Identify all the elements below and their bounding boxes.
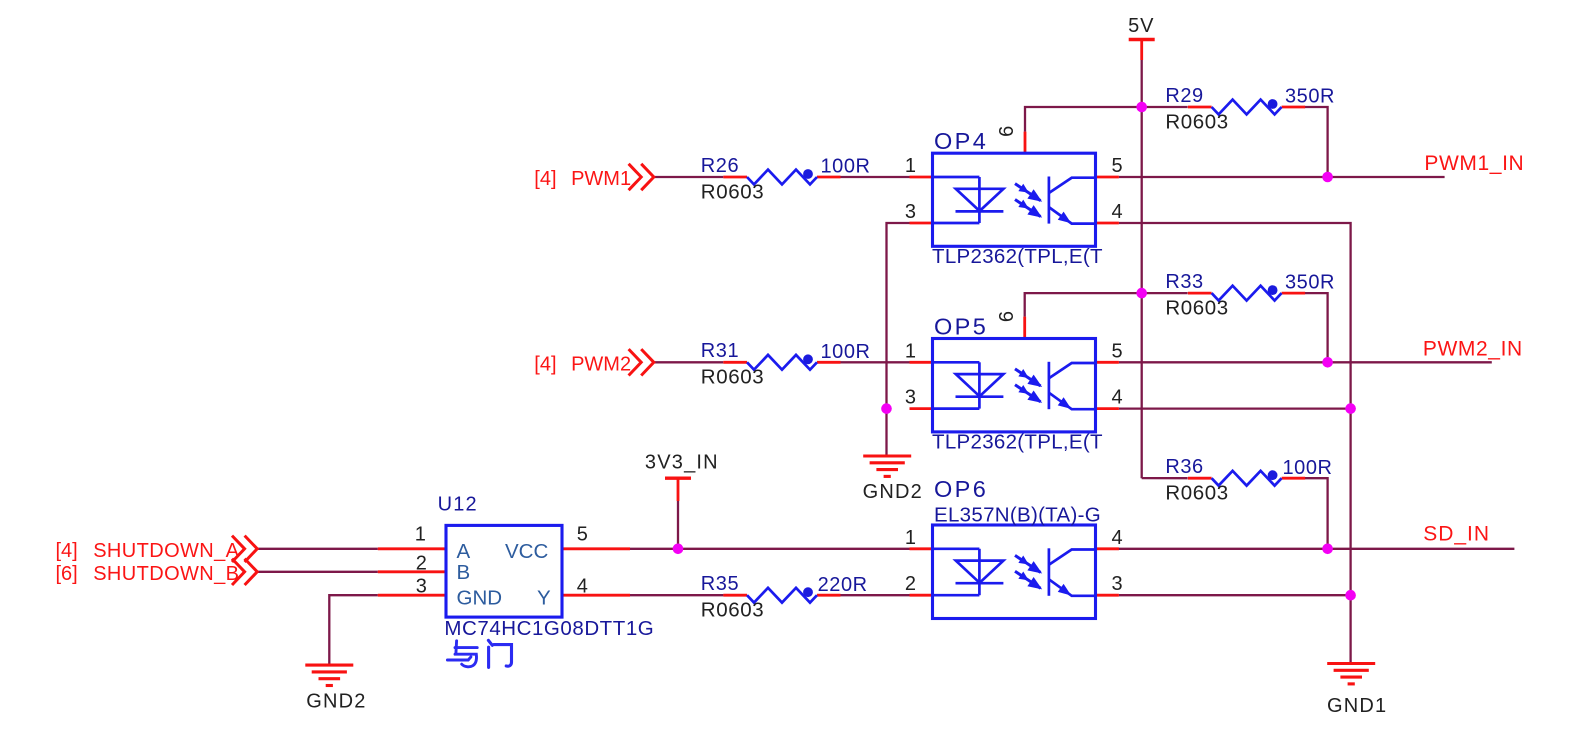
label U12 pin Y [537, 587, 551, 610]
svg-text:3: 3 [416, 575, 427, 597]
wire OP4 pin3 down to OP5 pin3 and GND2 [887, 223, 910, 456]
pin stub OP4 pin5 [1096, 176, 1119, 179]
label U12 [438, 493, 478, 515]
svg-text:3: 3 [905, 387, 916, 409]
wire OP5 pin6 to 5V rail [1025, 293, 1142, 317]
pin number OP4.6 [996, 126, 1018, 137]
pin stub OP5 pin5 [1096, 361, 1119, 364]
svg-text:[4]: [4] [56, 540, 78, 562]
svg-text:3: 3 [1112, 573, 1123, 595]
svg-text:1: 1 [415, 523, 426, 545]
pin stub U12 pin3 [378, 594, 446, 597]
pin stub U12 pin5 [562, 547, 630, 550]
svg-text:2: 2 [416, 553, 427, 575]
optocoupler OP6 [933, 525, 1096, 619]
svg-text:4: 4 [577, 575, 588, 597]
svg-text:6: 6 [996, 311, 1018, 322]
svg-text:R35: R35 [701, 573, 739, 595]
svg-text:4: 4 [1112, 201, 1123, 223]
wire R35 to OP6 pin2 [840, 594, 909, 596]
svg-text:PWM2_IN: PWM2_IN [1423, 337, 1523, 360]
wire R29 to PWM1_IN node [1304, 107, 1327, 177]
svg-text:GND2: GND2 [863, 481, 923, 503]
wire SHUTDOWN_A to U12 pin1 [257, 548, 378, 550]
port PWM2 input [534, 349, 654, 375]
pin number OP4.1 [905, 155, 916, 177]
svg-text:A: A [457, 540, 471, 563]
wire PWM1 input to R26 [654, 176, 724, 178]
pin stub OP4 pin4 [1096, 222, 1119, 225]
label U12 pin B [457, 561, 471, 584]
wire OP4 pin4 to GND1 rail [1119, 223, 1351, 664]
wire PWM1_IN net [1119, 176, 1445, 178]
pin number OP4.3 [905, 201, 916, 223]
pin stub U12 pin4 [562, 594, 630, 597]
svg-text:350R: 350R [1285, 272, 1335, 294]
svg-text:5: 5 [1112, 340, 1123, 362]
pin stub OP6 pin2 [910, 594, 933, 597]
resistor R35 [701, 573, 868, 622]
junction J7 [673, 544, 684, 555]
wire R33 to PWM2_IN node [1304, 293, 1327, 362]
port SHUTDOWN_A input [56, 536, 258, 562]
label OP4 [934, 128, 988, 154]
junction J3 [1136, 288, 1147, 299]
svg-text:R36: R36 [1165, 456, 1203, 478]
pin number OP5.4 [1112, 387, 1123, 409]
wire R26 to OP4 pin1 [840, 176, 909, 178]
wire U12 Y to R35 [630, 594, 723, 596]
svg-text:5: 5 [1112, 155, 1123, 177]
svg-text:2: 2 [905, 573, 916, 595]
wire 5V rail to R33 [1142, 292, 1188, 294]
pin number OP6.4 [1112, 527, 1123, 549]
svg-text:100R: 100R [821, 341, 871, 363]
resistor R33 [1165, 271, 1335, 320]
junction J5 [881, 403, 892, 414]
net label PWM2_IN [1423, 337, 1523, 360]
svg-text:R33: R33 [1165, 271, 1203, 293]
optocoupler OP4 [933, 153, 1096, 246]
junction J2 [1322, 172, 1333, 183]
svg-text:OP4: OP4 [934, 128, 988, 154]
label OP5 [934, 314, 988, 340]
svg-text:R0603: R0603 [701, 180, 764, 203]
junction J6 [1345, 403, 1356, 414]
svg-text:R31: R31 [701, 340, 739, 362]
wire 3V3_IN stub to node [677, 501, 679, 549]
junction J9 [1345, 590, 1356, 601]
junction J4 [1322, 357, 1333, 368]
svg-text:SHUTDOWN_B: SHUTDOWN_B [93, 563, 239, 585]
svg-text:350R: 350R [1285, 86, 1335, 108]
junction J8 [1322, 544, 1333, 555]
pin stub U12 pin1 [378, 547, 446, 550]
wire OP5 pin4 to GND1 rail [1119, 407, 1351, 409]
wire SD_IN net [1117, 548, 1514, 550]
svg-text:R0603: R0603 [701, 599, 764, 622]
net label PWM1_IN [1424, 152, 1524, 175]
svg-text:5V: 5V [1128, 15, 1154, 37]
svg-text:PWM2: PWM2 [571, 353, 631, 375]
svg-text:1: 1 [905, 155, 916, 177]
pin number OP5.5 [1112, 340, 1123, 362]
pin stub OP6 pin3 [1096, 594, 1119, 597]
svg-text:PWM1_IN: PWM1_IN [1424, 152, 1524, 175]
svg-text:U12: U12 [438, 493, 478, 515]
svg-text:[4]: [4] [534, 353, 556, 375]
svg-text:TLP2362(TPL,E(T: TLP2362(TPL,E(T [932, 431, 1103, 454]
svg-text:MC74HC1G08DTT1G: MC74HC1G08DTT1G [444, 617, 654, 640]
pin number OP6.2 [905, 573, 916, 595]
power 5V [1128, 15, 1155, 60]
svg-text:R0603: R0603 [1165, 296, 1228, 319]
label OP6 [934, 476, 988, 502]
pin stub OP4 pin6 [1024, 132, 1027, 154]
pin stub OP6 pin4 [1096, 547, 1119, 550]
svg-text:220R: 220R [818, 574, 868, 596]
wire U12 VCC to OP6 pin1 with 3V3 tap [630, 548, 910, 550]
pin number U12.2 [416, 553, 427, 575]
power 3V3_IN [645, 452, 719, 501]
pin stub OP5 pin1 [910, 361, 933, 364]
pin number OP6.1 [905, 527, 916, 549]
pin stub OP5 pin4 [1096, 407, 1119, 410]
pin number U12.5 [577, 523, 588, 545]
svg-text:R0603: R0603 [1165, 110, 1228, 133]
svg-text:R26: R26 [701, 155, 739, 177]
svg-text:VCC: VCC [505, 540, 548, 563]
svg-text:R29: R29 [1165, 85, 1203, 107]
wire 5V vertical rail [1141, 60, 1143, 478]
resistor R29 [1165, 85, 1335, 134]
pin stub OP4 pin3 [910, 222, 933, 225]
pin number OP5.6 [996, 311, 1018, 322]
resistor R36 [1165, 456, 1332, 505]
label U12 pin A [457, 540, 471, 563]
net label SD_IN [1423, 523, 1490, 546]
pin number OP5.1 [905, 340, 916, 362]
svg-text:3: 3 [905, 201, 916, 223]
svg-text:6: 6 [996, 126, 1018, 137]
svg-text:4: 4 [1112, 527, 1123, 549]
junction J1 [1136, 102, 1147, 113]
svg-text:1: 1 [905, 527, 916, 549]
wire SHUTDOWN_B to U12 pin2 [257, 571, 378, 573]
label OP5 part number [932, 431, 1103, 454]
wire R36 to SD_IN node [1302, 478, 1328, 549]
label U12 function (Chinese AND gate) [447, 640, 511, 667]
op-amp U12 box [446, 525, 562, 617]
svg-text:GND: GND [457, 587, 503, 610]
svg-text:B: B [457, 561, 471, 584]
svg-text:100R: 100R [821, 156, 871, 178]
svg-text:PWM1: PWM1 [571, 168, 631, 190]
resistor R26 [701, 155, 871, 204]
pin stub OP5 pin6 [1023, 317, 1026, 339]
ground GND2 (U12 side) [305, 665, 366, 712]
label U12 part number [444, 617, 654, 640]
pin number OP4.4 [1112, 201, 1123, 223]
pin number OP5.3 [905, 387, 916, 409]
pin number U12.1 [415, 523, 426, 545]
svg-text:[6]: [6] [56, 563, 78, 585]
svg-text:5: 5 [577, 523, 588, 545]
svg-text:1: 1 [905, 340, 916, 362]
svg-text:SHUTDOWN_A: SHUTDOWN_A [93, 540, 239, 562]
svg-text:Y: Y [537, 587, 551, 610]
resistor R31 [701, 340, 871, 389]
label OP4 part number [932, 245, 1103, 268]
svg-text:3V3_IN: 3V3_IN [645, 452, 719, 474]
svg-text:EL357N(B)(TA)-G: EL357N(B)(TA)-G [934, 504, 1101, 527]
port PWM1 input [534, 164, 654, 190]
wire R31 to OP5 pin1 [840, 361, 909, 363]
wire PWM2_IN net [1119, 361, 1492, 363]
pin number OP6.3 [1112, 573, 1123, 595]
port SHUTDOWN_B input [56, 559, 258, 585]
pin stub U12 pin2 [378, 570, 446, 573]
svg-text:100R: 100R [1283, 457, 1333, 479]
pin number U12.3 [416, 575, 427, 597]
label U12 pin GND [457, 587, 503, 610]
svg-text:OP6: OP6 [934, 476, 988, 502]
wire OP6 pin3 to GND1 rail [1119, 594, 1351, 596]
wire 5V rail to R36 [1142, 477, 1188, 479]
pin stub OP5 pin3 [910, 407, 933, 410]
pin stub OP4 pin1 [910, 176, 933, 179]
pin number OP4.5 [1112, 155, 1123, 177]
wire 5V rail to R29 [1142, 106, 1188, 108]
ground GND2 (opto side) [863, 456, 923, 503]
svg-text:4: 4 [1112, 387, 1123, 409]
label U12 pin VCC [505, 540, 548, 563]
svg-text:[4]: [4] [534, 168, 556, 190]
wire U12 GND to GND2 [329, 595, 378, 665]
svg-text:TLP2362(TPL,E(T: TLP2362(TPL,E(T [932, 245, 1103, 268]
svg-text:GND1: GND1 [1327, 695, 1387, 717]
svg-text:SD_IN: SD_IN [1423, 523, 1490, 546]
ground GND1 [1327, 664, 1387, 718]
svg-text:R0603: R0603 [1165, 482, 1228, 505]
label OP6 part number [934, 504, 1101, 527]
pin stub OP6 pin1 [910, 547, 933, 550]
wire OP4 pin6 to 5V rail [1025, 107, 1142, 132]
svg-text:GND2: GND2 [306, 691, 366, 713]
wire PWM2 input to R31 [654, 361, 724, 363]
pin number U12.4 [577, 575, 588, 597]
optocoupler OP5 [933, 339, 1096, 432]
svg-text:OP5: OP5 [934, 314, 988, 340]
svg-text:R0603: R0603 [701, 366, 764, 389]
